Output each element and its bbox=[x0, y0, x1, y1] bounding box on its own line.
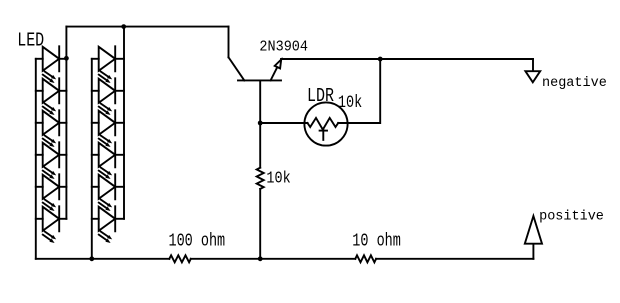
LED D12 (column 2, row 6) bbox=[92, 206, 124, 243]
LED D8 (column 2, row 2) bbox=[92, 78, 124, 115]
svg-text:10k: 10k bbox=[338, 92, 362, 112]
wire column 2 cathode rail bbox=[123, 27, 125, 219]
LED D5 (column 1, row 5) bbox=[36, 174, 67, 211]
svg-text:2N3904: 2N3904 bbox=[259, 39, 308, 56]
wire column 2 anode rail bbox=[91, 59, 93, 259]
junction dot: LDR lead / emitter wire bbox=[378, 57, 383, 62]
junction dot: column2 cathode rail / top rail bbox=[121, 24, 126, 29]
svg-text:100 ohm: 100 ohm bbox=[169, 231, 226, 251]
LED D11 (column 2, row 5) bbox=[92, 174, 124, 211]
junction dot: column2 anode rail / bottom rail bbox=[89, 256, 94, 261]
wire negative terminal riser bbox=[532, 59, 534, 71]
junction dot: base wire / LDR left lead bbox=[258, 121, 263, 126]
terminal positive (up triangle) bbox=[525, 216, 542, 244]
wire emitter to negative terminal bbox=[281, 58, 533, 60]
LED D1 (column 1, row 1) bbox=[36, 46, 67, 83]
resistor R1 10k (vertical) bbox=[257, 168, 264, 189]
svg-text:LDR: LDR bbox=[307, 86, 334, 107]
wire column 1 anode rail bbox=[35, 59, 37, 259]
resistor R2 100 ohm bbox=[169, 255, 191, 262]
wire base / divider column bbox=[259, 80, 261, 167]
transistor Q1 2N3904 (NPN) bbox=[229, 57, 282, 80]
wire top rail (LED cathodes to transistor collector) bbox=[66, 26, 228, 28]
LDR (photoresistor) circle + zigzag bbox=[304, 102, 347, 145]
svg-text:negative: negative bbox=[542, 76, 607, 91]
svg-text:10 ohm: 10 ohm bbox=[352, 231, 401, 251]
wire collector riser from top rail bbox=[228, 27, 230, 58]
svg-text:10k: 10k bbox=[266, 170, 290, 187]
wire LDR right lead up to emitter wire bbox=[338, 59, 380, 123]
resistor R3 10 ohm bbox=[355, 255, 376, 262]
wire bottom rail middle segment bbox=[191, 258, 355, 260]
wire column 1 cathode rail bbox=[65, 27, 67, 219]
LED D4 (column 1, row 4) bbox=[36, 142, 67, 179]
terminal negative (down triangle) bbox=[525, 71, 540, 82]
junction dot: column1 top LED cathode / rail bbox=[64, 56, 69, 61]
LED D6 (column 1, row 6) bbox=[36, 206, 67, 243]
wire 10k bottom lead bbox=[259, 189, 261, 259]
LED D3 (column 1, row 3) bbox=[36, 110, 67, 147]
wire bottom rail right segment bbox=[376, 258, 533, 260]
wire positive terminal riser bbox=[532, 244, 534, 259]
LED D2 (column 1, row 2) bbox=[36, 78, 67, 115]
junction dot: 10k lead / bottom rail bbox=[258, 256, 263, 261]
LED D7 (column 2, row 1) bbox=[92, 46, 124, 83]
svg-text:positive: positive bbox=[539, 210, 604, 225]
wire bottom rail left segment bbox=[36, 258, 170, 260]
LED D10 (column 2, row 4) bbox=[92, 142, 124, 179]
wire LDR left lead bbox=[260, 122, 307, 124]
svg-text:LED: LED bbox=[17, 31, 44, 52]
LED D9 (column 2, row 3) bbox=[92, 110, 124, 147]
